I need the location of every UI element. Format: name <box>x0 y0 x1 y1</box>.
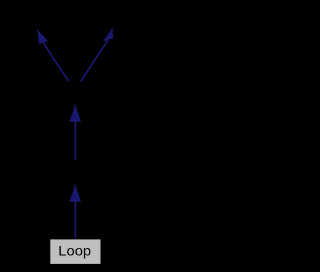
node Loop (box) <box>50 239 100 264</box>
arrowhead tip dot edge node A to node B <box>74 105 76 107</box>
svg-text:Loop: Loop <box>58 243 91 259</box>
arrowhead tip dot edge Loop to node A <box>74 185 76 187</box>
arrowhead edge Loop to node A <box>69 185 81 202</box>
wire edge Loop to node A (vertical) <box>74 201 76 237</box>
wire edge node A to node B (vertical) <box>74 121 76 160</box>
arrowhead edge node B to top-right node <box>103 28 113 42</box>
arrowhead tip dot edge node B to top-left node <box>37 30 39 32</box>
wire edge node B to top-right node (diagonal) <box>81 40 108 82</box>
wire edge node B to top-left node (diagonal) <box>44 43 70 82</box>
arrowhead tip dot edge node B to top-right node <box>111 28 113 30</box>
arrowhead edge node B to top-left node <box>38 30 49 44</box>
arrowhead edge node A to node B <box>69 105 81 122</box>
